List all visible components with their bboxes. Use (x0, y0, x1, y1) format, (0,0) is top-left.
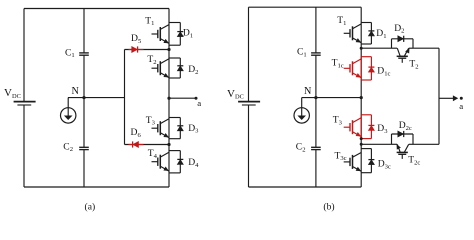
label D1 (b) (376, 28, 386, 40)
label T2 (147, 54, 156, 66)
svg-text:N: N (72, 86, 80, 97)
wire: circuit (b) top dc+ bus (249, 6, 362, 8)
wire: T2 diode bottom link (169, 77, 180, 79)
svg-text:T3: T3 (146, 115, 156, 127)
wire: circuit (a) phase leg (168, 9, 170, 188)
wire: circuit (a) neutral wire (68, 97, 125, 99)
diode D1 (177, 23, 183, 46)
wire: circuit (a) clamp rail (124, 50, 126, 145)
wire: T3c diode bottom link (361, 172, 371, 174)
output arrowhead (b) (453, 96, 457, 101)
IGBT T3 (red) (344, 118, 362, 137)
node: D6-leg junction dot (167, 143, 170, 146)
svg-text:T1: T1 (337, 15, 346, 27)
svg-text:a: a (197, 98, 201, 108)
wire: branch to output rail top (413, 47, 439, 49)
svg-text:(a): (a) (85, 201, 96, 212)
diode D2c (b) (398, 131, 404, 137)
wire: circuit (a) top dc+ bus (24, 8, 169, 10)
svg-text:C1: C1 (65, 47, 75, 59)
node a (b) terminal dot (460, 97, 463, 100)
wire: circuit (b) left rail upper (248, 7, 250, 101)
svg-text:T3c: T3c (335, 150, 347, 162)
IGBT T2 (b horizontal) (392, 48, 414, 63)
diode D1c (red) (368, 57, 374, 80)
label D4 (188, 157, 199, 169)
wire: D2c branch top wire (392, 133, 414, 135)
wire: T4 diode bottom link (169, 172, 180, 174)
wire: T3(b) diode bottom link (red) (361, 138, 371, 140)
wire: phase leg red segment through T1c cell (360, 57, 362, 80)
svg-text:a: a (459, 101, 463, 111)
diode D3 (177, 118, 183, 139)
wire: circuit (b) capacitor rail bottom (315, 150, 317, 187)
dc source VDC (a) battery plates (14, 102, 36, 105)
wire: branch to T2c/D2c (361, 143, 391, 145)
wire: T4 diode top link (169, 150, 180, 152)
wire: circuit (b) neutral wire (302, 97, 362, 99)
label C1 (a) (65, 47, 75, 59)
diode D2 (b) (398, 36, 404, 42)
node: T3c collector branch junction dot (360, 143, 363, 146)
svg-text:D5: D5 (131, 33, 142, 45)
wire: output rail (438, 48, 440, 144)
wire: T3 diode bottom link (169, 138, 180, 140)
wire: D2 branch right vertical (412, 39, 414, 48)
label T2c (b) (408, 155, 420, 167)
svg-text:D4: D4 (188, 157, 199, 169)
label VDC (a) (4, 87, 21, 100)
svg-text:T1: T1 (145, 15, 154, 27)
svg-text:C2: C2 (63, 141, 73, 153)
label C2 (b) (296, 142, 306, 154)
label C1 (b) (297, 47, 307, 59)
wire: T3(b) diode top link (red) (361, 114, 371, 116)
svg-text:D2: D2 (188, 64, 198, 76)
label D3 (188, 123, 199, 135)
label T2 (b) (409, 59, 418, 71)
svg-text:T4: T4 (148, 148, 158, 160)
wire: circuit (a) output wire (169, 97, 195, 99)
wire: T1 diode bottom link (169, 44, 180, 46)
label D3c (378, 159, 391, 171)
wire: circuit (a) capacitor rail bottom (83, 150, 85, 187)
svg-text:D2: D2 (394, 23, 404, 35)
wire: circuit (a) left rail upper (23, 9, 25, 102)
caption (b) (323, 201, 334, 212)
wire: T1(b) diode top link (361, 22, 371, 24)
label T3 (b) (333, 115, 343, 127)
svg-text:D3: D3 (377, 123, 388, 135)
svg-text:D1: D1 (376, 28, 386, 40)
wire: circuit (a) left rail lower (23, 105, 25, 187)
node: T1 emitter branch junction dot (360, 47, 363, 50)
label D2c (b) (399, 120, 412, 132)
wire: T1(b) diode bottom link (361, 43, 371, 45)
wire: D2c branch right vertical (412, 134, 414, 144)
label D6 (131, 127, 142, 139)
svg-text:D3c: D3c (378, 159, 391, 171)
capacitor C1 (a) (79, 53, 89, 55)
wire: circuit (a) capacitor rail upper (83, 9, 85, 53)
svg-text:VDC: VDC (4, 87, 21, 100)
IGBT T1 (b) (344, 24, 362, 43)
IGBT T3c (344, 153, 362, 172)
wire: circuit (b) left rail lower (248, 105, 250, 187)
svg-text:T1c: T1c (332, 58, 344, 70)
label D1c (377, 66, 390, 78)
svg-text:T2c: T2c (408, 155, 420, 167)
IGBT T1c (red) (344, 59, 362, 78)
wire: circuit (b) phase leg (360, 7, 362, 187)
node a (a-leg) junction dot (167, 97, 170, 100)
wire: T3c diode top link (361, 148, 371, 150)
diode D2 (177, 58, 183, 78)
wire: circuit (a) bottom dc- bus (24, 186, 169, 188)
svg-text:C1: C1 (297, 47, 307, 59)
clamp diode D5 (red) (129, 46, 144, 52)
wire: circuit (b) capacitor rail middle (315, 55, 317, 147)
svg-text:(b): (b) (323, 201, 334, 212)
wire: T2 diode top link (169, 57, 180, 59)
node: neutral-leg junction dot (b) (360, 96, 363, 99)
diode D3 (red) (368, 115, 374, 139)
node N (b) junction dot (314, 96, 317, 99)
wire: T1c diode bottom link (red) (361, 79, 371, 81)
diode D4 (177, 151, 183, 173)
label a (b) (459, 101, 463, 111)
capacitor C2 (a) (79, 147, 89, 149)
svg-text:D3: D3 (188, 123, 199, 135)
label D1 (183, 28, 193, 40)
label T4 (148, 148, 158, 160)
label VDC (b) (227, 88, 244, 101)
IGBT T1 (152, 25, 170, 44)
node: D5-leg junction dot (167, 48, 170, 51)
svg-text:T3: T3 (333, 115, 343, 127)
label T1 (145, 15, 154, 27)
label D3 (b) (377, 123, 388, 135)
svg-text:C2: C2 (296, 142, 306, 154)
capacitor C2 (b) (311, 147, 321, 149)
svg-text:D1: D1 (183, 28, 193, 40)
wire: circuit (b) capacitor rail upper (315, 7, 317, 53)
IGBT T3 (152, 119, 170, 138)
caption (a) (85, 201, 96, 212)
clamp diode D6 (red) (129, 141, 144, 147)
label T3c (335, 150, 347, 162)
wire: T3 diode top link (169, 117, 180, 119)
svg-text:D1c: D1c (377, 66, 390, 78)
label D2 (188, 64, 198, 76)
svg-text:VDC: VDC (227, 88, 244, 101)
wire: D2c branch left vertical (391, 134, 393, 144)
label T3 (146, 115, 156, 127)
label D2 (b) (394, 23, 404, 35)
IGBT T2 (152, 59, 170, 78)
capacitor C1 (b) (311, 53, 321, 55)
label T1 (b) (337, 15, 346, 27)
wire: circuit (a) D6 clamp wire (125, 144, 170, 146)
wire: circuit (a) capacitor rail middle (83, 55, 85, 147)
svg-text:D6: D6 (131, 127, 142, 139)
current source at N (a) (60, 98, 75, 124)
wire: circuit (b) bottom dc- bus (249, 186, 362, 188)
node a (a) terminal dot (195, 97, 198, 100)
diode D3c (368, 149, 374, 173)
wire: branch to output rail bottom (413, 143, 439, 145)
svg-text:T2: T2 (409, 59, 418, 71)
wire: output lead (b) (439, 97, 454, 99)
node N (a) junction dot (82, 96, 85, 99)
wire: circuit (a) D5 clamp wire (125, 49, 170, 51)
label D5 (131, 33, 142, 45)
wire: D2 branch left vertical (391, 39, 393, 48)
svg-text:D2c: D2c (399, 120, 412, 132)
label T1c (332, 58, 344, 70)
dc source VDC (b) battery plates (238, 102, 260, 105)
IGBT T4 (152, 152, 170, 171)
diode D1 (b) (368, 23, 374, 45)
IGBT T2c (b horizontal) (392, 144, 414, 159)
svg-text:T2: T2 (147, 54, 156, 66)
wire: T1 diode top link (169, 22, 180, 24)
label a (a) (197, 98, 201, 108)
wire: T1c diode top link (red) (361, 56, 371, 58)
label C2 (a) (63, 141, 73, 153)
svg-text:N: N (304, 86, 312, 97)
current source at N (b) (294, 98, 309, 124)
wire: D2 branch top wire (392, 38, 414, 40)
label N (b) (304, 86, 312, 97)
label N (a) (72, 86, 80, 97)
node: T3 output junction dot (b) (360, 137, 363, 140)
wire: phase leg red segment through T3 cell (360, 115, 362, 139)
wire: branch to T2/D2 (361, 47, 391, 49)
